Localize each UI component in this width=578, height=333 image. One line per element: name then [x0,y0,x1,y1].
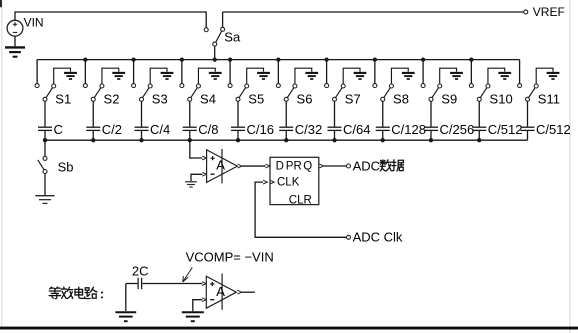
svg-text:C: C [54,122,63,137]
label equivalent circuit [49,287,103,299]
wire top bus [37,59,519,61]
wire top bus to switch S6 [277,60,279,84]
wire bottom bus to comparator + input [190,140,202,158]
ground below 2C [115,284,136,322]
capacitor C/32 [279,101,293,140]
switch S3 [132,84,153,102]
capacitor C/64 [328,101,342,140]
junction top bus S9 [421,57,425,61]
junction bottom bus cap 1 [43,138,47,142]
capacitor 2C [126,278,203,289]
svg-text:CLR: CLR [289,194,312,206]
capacitor C/2 [86,101,100,140]
svg-text:D: D [276,161,284,173]
ground at switch S3 [150,68,173,84]
wire top bus to switch S5 [229,60,231,84]
svg-text:S1: S1 [55,92,71,107]
junction top bus S4 [180,57,184,61]
svg-text:A: A [216,284,225,299]
junction bottom bus cap 9 [429,138,433,142]
svg-text:S10: S10 [490,92,513,107]
capacitor C/512 [472,101,486,140]
wire top bus to switch S2 [84,60,86,84]
wire top bus to switch S7 [326,60,328,84]
svg-text:S7: S7 [345,92,361,107]
svg-text:S3: S3 [152,92,168,107]
switch Sa [204,12,224,60]
terminal ADC Clk [347,235,351,239]
junction Sa top bus [213,57,217,61]
op-amp A equivalent [206,274,236,310]
wire top bus to switch S1 [36,60,38,84]
input arrow D [266,164,270,168]
ground at eq - input [182,311,204,313]
capacitor C/256 [424,101,438,140]
wire - input eq to ground [193,300,202,312]
wire eq output [242,291,255,293]
ground at switch S10 [488,68,511,84]
wire bottom bus [45,139,528,141]
output arrow Q [319,164,323,168]
svg-text:C/512: C/512 [536,122,571,137]
capacitor C/128 [376,101,390,140]
svg-text:S2: S2 [104,92,120,107]
ground at switch S5 [247,68,270,84]
capacitor C/16 [231,101,245,140]
terminal VREF [524,10,528,14]
capacitor C/8 [183,101,197,140]
wire top bus to switch S11 [519,60,521,84]
input arrow + eq [202,282,206,286]
svg-text:PR: PR [286,161,302,173]
wire VIN to switch Sa [15,12,206,28]
wire top bus to switch S4 [181,60,183,84]
wire ADC Clk to CLK [255,182,346,237]
svg-text:VREF: VREF [533,5,565,19]
input arrow + [202,156,206,160]
ground at switch S8 [391,68,414,84]
wire VREF rail [223,11,524,13]
svg-text:Sb: Sb [58,159,74,174]
switch S7 [325,84,346,102]
svg-text:C/512: C/512 [488,122,523,137]
svg-text:S5: S5 [248,92,264,107]
annotation arrow VCOMP [183,267,193,282]
switch S6 [276,84,297,102]
switch Sb [38,140,47,195]
ground at comparator - input [185,181,197,183]
junction bottom bus cap 2 [91,138,95,142]
wire comparator to flip-flop D [242,165,266,167]
terminal ADC data [347,164,351,168]
junction top bus S8 [373,57,377,61]
ground at switch S7 [343,68,366,84]
svg-text:S4: S4 [200,92,216,107]
junction top bus S5 [228,57,232,61]
svg-text:CLK: CLK [277,177,300,189]
input arrow - [202,172,206,176]
svg-text:C/32: C/32 [295,122,322,137]
ground at switch S1 [54,68,77,84]
ground at switch S11 [536,68,559,84]
switch S1 [35,84,56,102]
capacitor C/512 [521,101,535,140]
switch S8 [373,84,394,102]
junction bottom bus cap 5 [236,138,240,142]
wire top bus to switch S10 [470,60,472,84]
svg-text:VCOMP= −VIN: VCOMP= −VIN [186,250,274,265]
junction bottom bus cap 3 [139,138,143,142]
input arrow - eq [202,298,206,302]
svg-text:ADC: ADC [353,158,380,173]
switch S9 [421,84,442,102]
svg-text:C/8: C/8 [198,122,218,137]
junction bottom bus cap 4 [188,138,192,142]
op-amp comparator A [207,149,238,183]
svg-text:C/16: C/16 [247,122,274,137]
svg-text:C/2: C/2 [102,122,122,137]
junction top bus S7 [324,57,328,61]
junction top bus S6 [276,57,280,61]
svg-text:C/64: C/64 [343,122,370,137]
svg-text:ADC Clk: ADC Clk [353,230,403,245]
svg-text:Sa: Sa [224,29,241,44]
junction bottom bus cap 10 [477,138,481,142]
ground below Sb [35,195,54,197]
ground at switch S6 [295,68,318,84]
switch S5 [228,84,249,102]
svg-text:S9: S9 [441,92,457,107]
output arrow comparator [238,164,242,168]
clock input arrows [263,180,267,184]
svg-text:S11: S11 [538,92,560,107]
svg-text:Q: Q [303,161,312,173]
junction top bus S3 [131,57,135,61]
wire top bus to switch S3 [133,60,135,84]
svg-text:C/4: C/4 [150,122,170,137]
svg-text:C/128: C/128 [391,122,426,137]
wire top bus to switch S8 [374,60,376,84]
svg-text:S6: S6 [297,92,313,107]
flip-flop U2 box [270,157,319,204]
svg-text:VIN: VIN [24,16,44,30]
junction bottom bus cap 7 [332,138,336,142]
switch S10 [469,84,490,102]
junction bottom bus cap 8 [381,138,385,142]
switch S4 [180,84,201,102]
junction bottom bus cap 6 [284,138,288,142]
ground at switch S4 [198,68,221,84]
ground at switch S9 [440,68,463,84]
capacitor C [38,101,52,140]
wire Q output [324,165,347,167]
switch S11 [518,84,539,102]
output arrow eq [237,290,241,294]
wire top bus to switch S9 [422,60,424,84]
wire comparator - input to ground [191,174,202,181]
capacitor C/4 [135,101,149,140]
svg-text:C/256: C/256 [440,122,475,137]
svg-text:S8: S8 [393,92,409,107]
voltage source VIN [7,20,23,36]
label ADC data [353,158,404,173]
switch S2 [83,84,104,102]
junction top bus S10 [469,57,473,61]
junction top bus S2 [83,57,87,61]
svg-text:A: A [216,157,225,172]
ground at switch S2 [102,68,125,84]
ground below VIN [5,36,25,57]
svg-text:2C: 2C [132,263,149,278]
